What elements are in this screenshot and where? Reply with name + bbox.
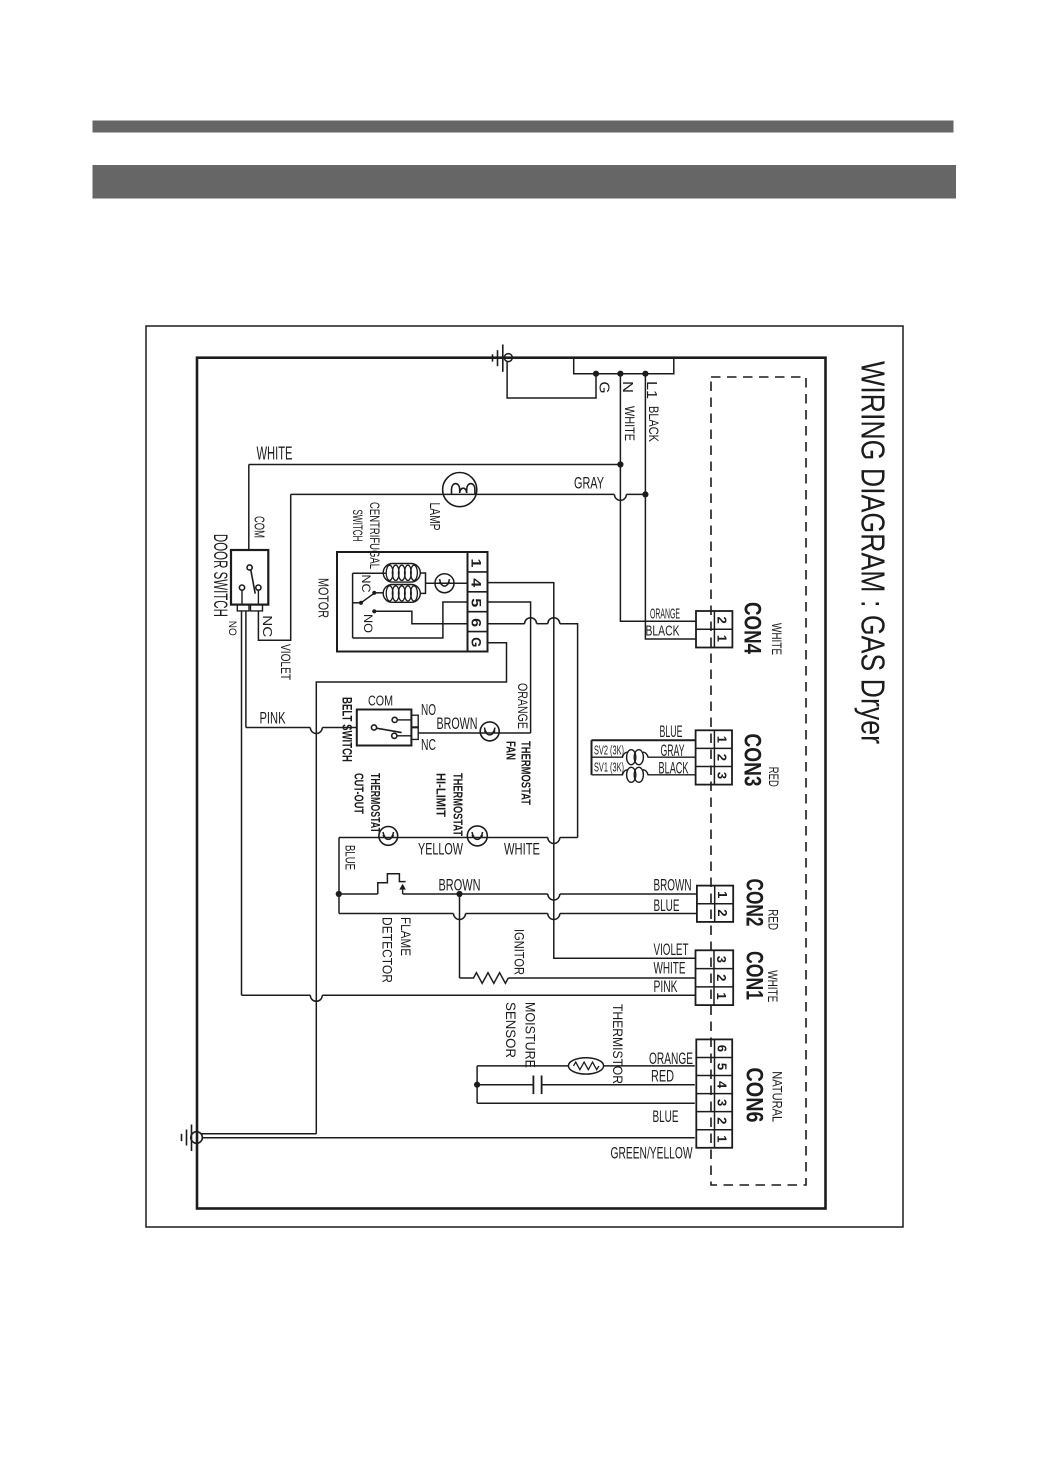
inner diagram border (197, 358, 826, 1209)
wire ground rail into ground (201, 1133, 316, 1135)
centrifugal NO contact dot (372, 609, 376, 613)
svg-text:NC: NC (421, 737, 436, 754)
svg-text:DETECTOR: DETECTOR (379, 917, 394, 983)
chassis ground (bottom) (191, 1132, 203, 1144)
svg-text:IGNITOR: IGNITOR (512, 929, 528, 975)
wire orange to CON6 pin5 (604, 1065, 695, 1067)
wire pin5 to orange (488, 602, 531, 733)
junction dot GRAY-L1 (642, 491, 648, 497)
motor thermal protector circle (435, 574, 454, 593)
power terminal bracket (574, 358, 674, 374)
wire brown flame to CON2 (403, 893, 548, 895)
svg-text:4: 4 (468, 578, 484, 587)
svg-text:5: 5 (468, 598, 484, 607)
svg-text:HI-LIMIT: HI-LIMIT (434, 773, 449, 817)
wire NO to pin 6 (374, 611, 467, 623)
svg-text:WHITE: WHITE (504, 840, 540, 859)
svg-text:YELLOW: YELLOW (418, 840, 463, 859)
moisture sensor bracket (476, 1066, 478, 1103)
svg-text:BROWN: BROWN (437, 714, 478, 733)
wire orange sensor to thermistor (477, 1065, 568, 1067)
svg-text:3: 3 (714, 956, 729, 963)
door switch lever (251, 570, 255, 594)
svg-text:NO: NO (361, 614, 375, 633)
svg-text:G: G (595, 382, 612, 394)
wire N vertical to CON4 pin2 (620, 374, 696, 622)
wire L1 vertical to CON4 pin1 (645, 374, 696, 639)
svg-text:3: 3 (715, 772, 730, 779)
node L1 junction dot (642, 371, 648, 377)
svg-text:MOTOR: MOTOR (315, 578, 331, 618)
svg-text:BLUE: BLUE (342, 845, 357, 870)
node N junction dot (617, 371, 623, 377)
svg-text:NO: NO (226, 621, 238, 636)
svg-text:CON6: CON6 (741, 1068, 768, 1123)
svg-text:FLAME: FLAME (398, 917, 413, 956)
svg-text:WHITE: WHITE (257, 444, 293, 464)
cut-out thermostat circle (379, 827, 398, 846)
svg-text:PINK: PINK (654, 977, 678, 996)
wire belt NC to fan thermostat (418, 732, 530, 734)
svg-text:CON3: CON3 (739, 734, 766, 787)
svg-text:2: 2 (714, 974, 729, 981)
wire through lamp (443, 493, 477, 495)
flame detector step symbol (378, 874, 406, 894)
wire NO double drop (pink pair) (241, 611, 243, 995)
hop GRAY over N (614, 494, 626, 500)
svg-text:SENSOR: SENSOR (503, 1002, 518, 1058)
fan thermostat circle (480, 722, 499, 741)
wire red through capacitor (477, 1084, 533, 1086)
belt switch terminal tabs (411, 715, 418, 727)
door switch contact stems (241, 590, 243, 604)
coil right-end tie (420, 573, 425, 593)
svg-text:MOISTURE: MOISTURE (523, 1002, 538, 1068)
connector CON4 (696, 611, 732, 648)
svg-text:BLACK: BLACK (646, 623, 680, 640)
door switch NO contact (239, 585, 244, 590)
wire pink to belt switch (246, 727, 310, 729)
SV2 solenoid coil (592, 752, 628, 757)
svg-text:1: 1 (715, 891, 730, 898)
hop PINK over ground rail (bottom) (310, 995, 322, 1001)
wire GRAY lamp to L1 (477, 493, 615, 495)
svg-text:PINK: PINK (260, 709, 286, 728)
wire GREEN/YELLOW to CON6 pin1 (202, 1137, 694, 1139)
svg-text:ORANGE: ORANGE (650, 606, 680, 623)
wire pink bottom to CON1 pin1 (242, 994, 311, 996)
wire blue to CON2 (339, 913, 454, 915)
belt switch NC contact (392, 733, 397, 738)
svg-text:NC: NC (260, 615, 275, 637)
wire ignitor riser (459, 894, 461, 978)
motor pin strip (468, 552, 488, 652)
wire brown to flame detector (339, 893, 378, 895)
gray header rule bar (93, 121, 954, 133)
node G junction dot (593, 371, 599, 377)
svg-text:GRAY: GRAY (574, 474, 604, 493)
hi-limit thermostat circle (467, 826, 487, 846)
svg-text:COM: COM (250, 516, 267, 538)
wire ignitor to CON1 pin2 (508, 977, 695, 979)
svg-text:1: 1 (715, 635, 730, 642)
svg-text:6: 6 (715, 1045, 730, 1052)
svg-text:WIRING DIAGRAM : GAS Dryer: WIRING DIAGRAM : GAS Dryer (855, 361, 892, 744)
svg-text:WHITE: WHITE (769, 623, 785, 655)
svg-text:N: N (619, 381, 636, 393)
chassis ground (top) (504, 354, 512, 362)
svg-text:CON2: CON2 (740, 879, 767, 927)
svg-text:LAMP: LAMP (426, 503, 442, 531)
svg-text:VIOLET: VIOLET (654, 940, 689, 959)
svg-text:2: 2 (715, 754, 730, 761)
svg-text:1: 1 (468, 559, 484, 568)
svg-text:BLUE: BLUE (653, 1107, 679, 1126)
svg-text:BROWN: BROWN (654, 876, 692, 895)
svg-text:NATURAL: NATURAL (770, 1071, 786, 1122)
svg-text:2: 2 (715, 616, 730, 623)
SV1 solenoid coil (592, 770, 628, 775)
svg-text:VIOLET: VIOLET (278, 644, 293, 680)
svg-text:5: 5 (715, 1063, 730, 1070)
svg-text:WHITE: WHITE (654, 959, 686, 978)
svg-text:2: 2 (715, 909, 730, 916)
connector CON1 (696, 950, 734, 1005)
belt switch NO contact (392, 717, 397, 722)
svg-text:THERMOSTAT: THERMOSTAT (368, 773, 383, 833)
svg-text:1: 1 (715, 736, 730, 743)
svg-text:1: 1 (715, 1135, 730, 1142)
wire pin4 down (violet to CON1) (488, 583, 696, 959)
svg-text:WHITE: WHITE (765, 970, 781, 1002)
motor aux winding coil (383, 585, 420, 603)
wire blue to CON6 pin3 (477, 1102, 695, 1104)
connector CON2 (697, 886, 733, 922)
svg-text:RED: RED (766, 909, 782, 930)
motor main winding coil (383, 564, 420, 583)
wire door COM drop (248, 465, 250, 551)
svg-text:SWITCH: SWITCH (350, 510, 365, 542)
centrifugal NC contact dot (372, 591, 376, 595)
svg-text:GRAY: GRAY (661, 741, 685, 760)
wire WHITE from door COM to N (249, 464, 621, 466)
svg-text:ORANGE: ORANGE (515, 683, 530, 729)
wire NC violet to lamp (258, 494, 290, 640)
svg-text:RED: RED (651, 1067, 674, 1086)
svg-text:COM: COM (368, 693, 393, 710)
junction dot WHITE-N (617, 461, 623, 467)
wire pinG to ground rail (316, 643, 506, 1134)
svg-text:CENTRIFUGAL: CENTRIFUGAL (367, 502, 382, 569)
svg-text:NO: NO (421, 702, 436, 719)
lamp L1 circle (443, 473, 477, 507)
svg-text:BLUE: BLUE (660, 722, 683, 741)
svg-text:BLACK: BLACK (646, 406, 662, 443)
centrifugal pivot stub (353, 602, 361, 604)
thermistor zigzag (574, 1062, 599, 1070)
dashed connector-panel boundary (711, 377, 806, 1185)
wire hi-limit to pin6 riser (548, 838, 560, 844)
ignitor resistor zigzag (460, 973, 509, 984)
wire pin6 with hops (488, 623, 525, 625)
svg-text:3: 3 (715, 1099, 730, 1106)
svg-text:THERMISTOR: THERMISTOR (610, 1004, 625, 1084)
connector CON3 (696, 730, 732, 784)
svg-text:6: 6 (468, 618, 484, 627)
svg-text:G: G (468, 637, 484, 647)
svg-text:2: 2 (715, 1117, 730, 1124)
outer page border (146, 326, 903, 1227)
gas valve housing (591, 740, 593, 775)
door switch NC contact (256, 585, 261, 590)
wire blue riser down from thermostats (338, 838, 340, 914)
svg-text:ORANGE: ORANGE (649, 1049, 693, 1068)
belt switch lever (377, 728, 402, 732)
door switch S1 box (231, 550, 268, 605)
svg-text:FAN: FAN (504, 741, 519, 760)
svg-text:1: 1 (714, 992, 729, 999)
door switch terminal tabs (237, 605, 249, 611)
thermistor ellipse (568, 1058, 603, 1074)
svg-text:BELT SWITCH: BELT SWITCH (339, 697, 354, 762)
junction dot sensor-red (474, 1082, 480, 1088)
junction dot brown-ignitor (456, 891, 462, 897)
hop PINK over ground rail (310, 728, 322, 734)
capacitor C1 plates (532, 1076, 534, 1095)
gray section title bar (93, 165, 957, 199)
svg-text:RED: RED (766, 767, 782, 787)
wire thermo line cutout segment (339, 837, 548, 839)
svg-text:SV1 (3K): SV1 (3K) (594, 761, 624, 775)
svg-text:NC: NC (359, 575, 373, 593)
svg-text:WHITE: WHITE (622, 406, 638, 441)
wire BLUE valve top to CON3 pin1 (592, 739, 696, 741)
svg-text:THERMOSTAT: THERMOSTAT (519, 741, 534, 805)
centrifugal switch frame (353, 572, 386, 574)
svg-text:BLUE: BLUE (654, 896, 680, 915)
motor enclosure box (337, 552, 468, 652)
door switch COM contact (247, 565, 252, 570)
connector CON6 (696, 1039, 732, 1147)
svg-text:CUT-OUT: CUT-OUT (352, 773, 367, 814)
belt switch box (357, 710, 412, 746)
belt switch pivot contact (371, 725, 376, 730)
wire ground to G (507, 362, 596, 398)
svg-text:THERMOSTAT: THERMOSTAT (451, 773, 466, 836)
flame detector arrow (399, 884, 406, 890)
svg-text:BLACK: BLACK (659, 759, 689, 778)
centrifugal lever (361, 593, 374, 603)
svg-text:SV2 (3K): SV2 (3K) (594, 744, 624, 758)
wire violet into lamp (291, 493, 443, 495)
svg-text:GREEN/YELLOW: GREEN/YELLOW (611, 1144, 693, 1163)
centrifugal pivot dot (359, 601, 363, 605)
junction dot blue-brown (336, 891, 342, 897)
svg-text:CON1: CON1 (740, 951, 767, 1000)
lamp filament m-shape (452, 484, 475, 495)
svg-text:CON4: CON4 (739, 602, 766, 655)
svg-text:DOOR SWITCH: DOOR SWITCH (209, 534, 230, 617)
svg-text:4: 4 (715, 1081, 730, 1089)
